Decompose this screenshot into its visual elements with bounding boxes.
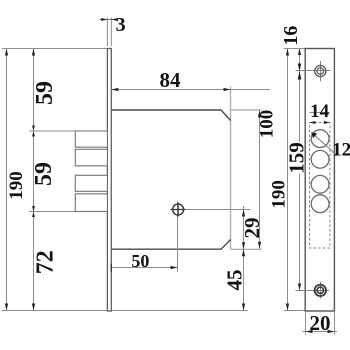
- bolt holes dashed outline: [310, 123, 330, 249]
- svg-text:20: 20: [310, 311, 331, 335]
- svg-text:59: 59: [32, 81, 58, 105]
- bolt hole 3: [311, 175, 329, 193]
- leader line 12: [312, 133, 338, 156]
- center mark: [171, 202, 185, 216]
- lock body right edge: [230, 87, 232, 250]
- svg-text:100: 100: [257, 110, 278, 139]
- extension line bottom: [2, 310, 248, 312]
- screw hole bottom: [315, 285, 326, 296]
- extension line top left: [2, 48, 107, 50]
- dimension 14 line: [309, 112, 330, 114]
- extension line bolt top row: [29, 130, 107, 132]
- screw hole top: [315, 65, 326, 76]
- svg-text:45: 45: [222, 270, 246, 291]
- center mark guide vertical: [177, 202, 179, 273]
- dimension 84: [111, 88, 270, 91]
- deadbolt 1: [75, 131, 107, 147]
- extension line bolt bottom row: [29, 211, 107, 213]
- svg-text:16: 16: [280, 26, 302, 46]
- svg-text:72: 72: [32, 250, 58, 274]
- label 159 background: [289, 142, 303, 174]
- dimension 100: [258, 110, 261, 249]
- svg-text:190: 190: [269, 180, 290, 209]
- bolt hole 2: [311, 150, 329, 168]
- faceplate front view: [305, 49, 334, 312]
- deadbolt 4: [75, 194, 107, 212]
- svg-text:190: 190: [6, 171, 27, 200]
- faceplate edge extensions for 20: [305, 311, 307, 335]
- faceplate side view: [107, 49, 111, 312]
- dimension 3 line: [100, 19, 117, 21]
- dimension 59-59-72 chain line: [32, 49, 35, 311]
- svg-text:3: 3: [116, 14, 126, 36]
- dimension 190 right view: [286, 49, 289, 311]
- lock body outline: [111, 110, 230, 249]
- svg-text:29: 29: [240, 218, 264, 239]
- dimension 29 and 45: [242, 206, 245, 311]
- svg-text:59: 59: [31, 162, 57, 186]
- dimension 16 and 159 line: [298, 49, 302, 291]
- screw hole bottom guide horizontal: [296, 290, 330, 292]
- center mark guide horizontal: [170, 209, 251, 211]
- svg-text:159: 159: [285, 142, 309, 174]
- bolt hole 1: [311, 130, 329, 148]
- extension line top right view: [284, 48, 307, 50]
- screw hole top guide horizontal: [296, 70, 331, 72]
- bolt hole 4: [311, 195, 329, 213]
- svg-text:12: 12: [332, 140, 350, 161]
- dimension 190 left line: [5, 49, 8, 311]
- deadbolt 2: [75, 149, 107, 166]
- extension line bottom right view: [284, 310, 306, 312]
- deadbolt 3: [75, 175, 107, 191]
- dimension 50: [111, 264, 177, 272]
- extension line body top: [231, 109, 262, 111]
- dimension 3 extension lines: [106, 18, 108, 47]
- dimension 20 line: [303, 331, 338, 333]
- dimension 14 arrows: [310, 121, 316, 124]
- svg-text:84: 84: [160, 68, 182, 92]
- screw hole bottom guide vertical: [320, 282, 322, 299]
- svg-text:50: 50: [131, 251, 149, 271]
- extension line body bottom: [231, 248, 262, 250]
- svg-text:14: 14: [310, 101, 330, 122]
- screw hole top guide vertical: [320, 61, 322, 81]
